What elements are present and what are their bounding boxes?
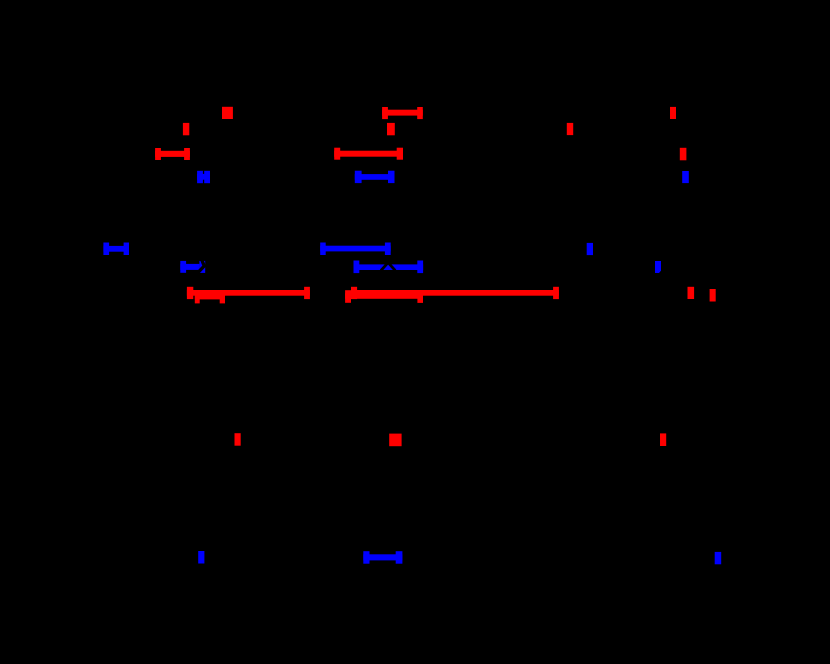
blue atom mark I3 (715, 552, 722, 564)
red atom mark B2 (387, 123, 395, 135)
red short I-beam F3b (offset lower) (195, 291, 225, 303)
blue bond I-beam F2 with black caret crossing (354, 261, 424, 274)
red atom mark A1 (183, 123, 189, 135)
red I-beam F4b (lower, left portion) (345, 290, 423, 303)
red long double I-beam F3 (main) (187, 287, 310, 299)
blue atom mark D3 (682, 171, 689, 183)
red atom mark D1 (670, 107, 676, 119)
red bond I-beam A3 (155, 148, 190, 160)
blue H glyph A4 (197, 171, 210, 183)
red atom mark G3b (710, 289, 716, 302)
blue atom mark I1 (198, 551, 204, 564)
black caret over F2 bar (381, 263, 395, 271)
blue bond I-beam I2 (363, 551, 402, 564)
blue bond I-beam E1 (103, 243, 129, 256)
red atom square A2 (222, 107, 233, 119)
blue bond I-beam B4 (355, 171, 395, 183)
blue atom mark G2 with clipped corner (655, 261, 661, 273)
red atom mark G3a (688, 287, 695, 299)
red long I-beam F4 (upper) (351, 287, 559, 299)
red atom square H2 (389, 434, 401, 447)
black bond chevron over E2 cap (198, 259, 204, 272)
red bond I-beam B3 (334, 148, 403, 160)
blue bond I-beam F1 (320, 243, 391, 256)
red atom mark D2 (680, 148, 687, 161)
red atom mark H1 (235, 433, 241, 446)
red atom mark H3 (660, 433, 666, 446)
blue bond I-beam E2 with black bond vertex over right cap (180, 261, 205, 273)
blue atom mark G1 (587, 243, 593, 255)
red bond I-beam B1 (382, 107, 423, 119)
red atom mark C1 (567, 123, 573, 135)
